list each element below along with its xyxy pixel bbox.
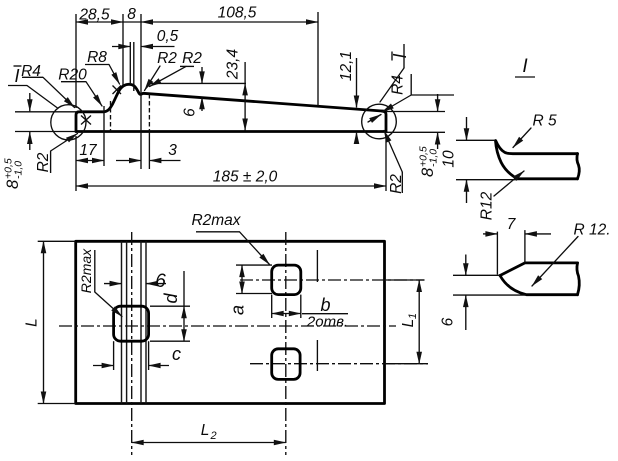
- svg-text:d: d: [161, 293, 181, 304]
- svg-text:R2: R2: [182, 50, 202, 67]
- svg-text:-1,0: -1,0: [428, 149, 440, 167]
- svg-text:0,5: 0,5: [157, 28, 179, 45]
- svg-text:2: 2: [209, 430, 216, 442]
- svg-text:8: 8: [4, 179, 22, 189]
- svg-text:-1,0: -1,0: [13, 161, 25, 179]
- svg-text:2отв.: 2отв.: [306, 314, 348, 331]
- svg-text:L: L: [24, 318, 41, 327]
- svg-text:108,5: 108,5: [218, 5, 257, 22]
- svg-text:1: 1: [407, 313, 419, 319]
- svg-text:7: 7: [507, 216, 517, 233]
- svg-text:6: 6: [440, 317, 457, 326]
- svg-text:R12: R12: [479, 191, 496, 220]
- svg-text:28,5: 28,5: [78, 7, 110, 24]
- svg-text:R20: R20: [58, 67, 87, 84]
- svg-text:12,1: 12,1: [338, 51, 355, 81]
- svg-text:R2max: R2max: [78, 248, 94, 293]
- svg-text:3: 3: [168, 142, 177, 159]
- svg-text:185 ± 2,0: 185 ± 2,0: [213, 169, 278, 186]
- svg-text:R2: R2: [35, 152, 52, 172]
- svg-text:b: b: [320, 295, 330, 315]
- svg-text:R2: R2: [157, 50, 177, 67]
- svg-text:R 12.: R 12.: [573, 222, 610, 239]
- svg-text:c: c: [172, 344, 181, 364]
- svg-text:6: 6: [182, 108, 199, 117]
- svg-text:R8: R8: [87, 49, 107, 66]
- svg-text:R 5: R 5: [532, 113, 557, 130]
- svg-text:I: I: [390, 53, 410, 58]
- svg-text:6: 6: [155, 271, 166, 292]
- svg-text:8: 8: [127, 6, 136, 23]
- svg-text:R4: R4: [390, 75, 407, 95]
- svg-text:R2max: R2max: [191, 212, 241, 229]
- svg-text:17: 17: [79, 142, 98, 159]
- svg-text:8: 8: [419, 167, 437, 177]
- svg-text:L: L: [201, 422, 210, 439]
- svg-text:10: 10: [441, 150, 458, 168]
- svg-text:I: I: [14, 66, 19, 86]
- svg-text:23,4: 23,4: [225, 49, 242, 81]
- svg-text:a: a: [227, 305, 247, 315]
- svg-text:I: I: [522, 56, 528, 77]
